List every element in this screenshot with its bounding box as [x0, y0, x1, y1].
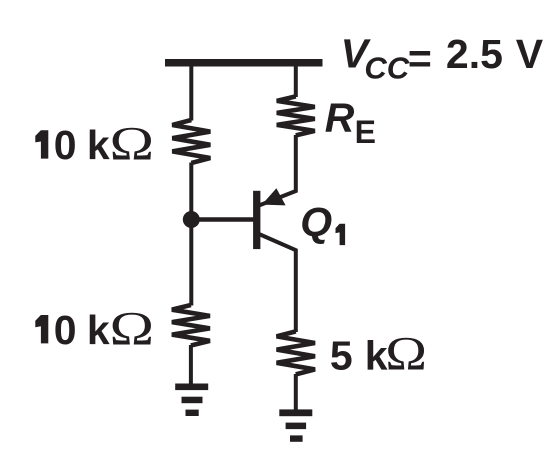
ground (right) [279, 409, 312, 441]
svg-text:R: R [325, 94, 355, 140]
label RE value [325, 94, 376, 150]
wire RE to emitter (with bend) [257, 135, 296, 206]
svg-text:k: k [87, 122, 110, 168]
collector wire of Q1 down to R5 [257, 233, 296, 332]
svg-text:0: 0 [54, 307, 77, 353]
wire rail to RE [294, 64, 298, 97]
wire rail to R1 [189, 64, 193, 121]
ground (left) [175, 384, 208, 417]
wire R2 to ground [189, 345, 193, 385]
resistor R2 10 k (lower left) [172, 305, 210, 346]
svg-text:E: E [355, 114, 376, 150]
svg-text:CC: CC [364, 51, 409, 86]
label Q1 [300, 199, 345, 245]
svg-text:k: k [365, 332, 388, 378]
svg-text:=: = [408, 36, 432, 82]
svg-text:Ω: Ω [385, 327, 427, 380]
label 5 k Ohm [330, 327, 427, 380]
node dot (base node) [183, 211, 200, 228]
emitter arrow of Q1 (PNP) [262, 188, 286, 205]
base bar of transistor Q1 [253, 191, 260, 249]
svg-text:Ω: Ω [110, 302, 155, 355]
svg-text:V: V [516, 31, 544, 77]
label 10 k Ohm (lower) [35, 302, 154, 355]
wire node to base [191, 217, 254, 221]
svg-text:Ω: Ω [110, 117, 155, 170]
svg-text:5: 5 [330, 332, 353, 378]
label Vcc = 2.5 V [341, 30, 544, 85]
svg-text:Q: Q [300, 199, 332, 245]
svg-text:k: k [87, 307, 110, 353]
svg-text:0: 0 [54, 122, 77, 168]
Vcc rail [165, 59, 323, 67]
resistor RE [277, 96, 315, 135]
wire R1 to R2 through node [189, 163, 193, 306]
label 10 k Ohm (upper) [35, 117, 154, 170]
resistor R5 5 k [277, 331, 315, 374]
wire R5 to ground [294, 374, 298, 411]
resistor R1 10 k (upper left) [172, 120, 210, 163]
svg-text:2.5: 2.5 [446, 31, 503, 77]
